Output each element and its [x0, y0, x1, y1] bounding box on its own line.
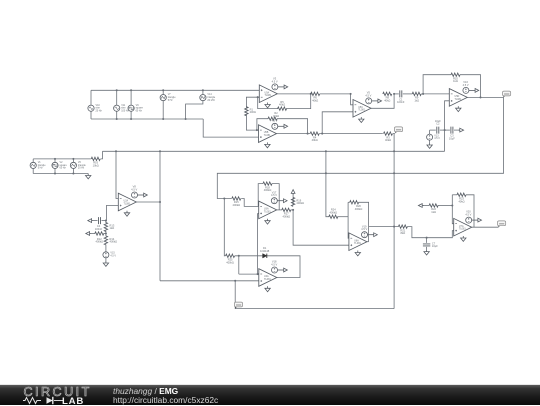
- wire U7 -in: [239, 273, 259, 275]
- diode D1: [263, 254, 267, 258]
- svg-text:TL081: TL081: [459, 228, 466, 231]
- resistor R23: [457, 193, 466, 196]
- label R14_400kΩ: [110, 237, 118, 244]
- wire R9 to U8 -in: [421, 93, 449, 95]
- resistor R21: [398, 225, 407, 228]
- label V10_sine_20 Hz: [96, 104, 103, 113]
- svg-text:4.5 V: 4.5 V: [271, 262, 277, 266]
- junction: [115, 150, 117, 152]
- capacitor C3: [451, 127, 453, 134]
- svg-text:4.5 V: 4.5 V: [434, 137, 440, 140]
- ground U6: [265, 219, 270, 224]
- junction: [393, 150, 395, 152]
- wire R3 to flag: [393, 133, 395, 135]
- svg-text:400kΩ: 400kΩ: [355, 207, 363, 211]
- wire V7 branch: [162, 90, 164, 119]
- wire U9 fb top left: [348, 201, 350, 203]
- ac source V11: [114, 105, 120, 111]
- label R21_8kΩ: [401, 228, 406, 235]
- label R8_40kΩ: [384, 96, 390, 103]
- svg-text:4.5 V: 4.5 V: [110, 254, 116, 257]
- svg-text:TL081: TL081: [354, 242, 361, 245]
- ground lower sources: [86, 174, 91, 179]
- svg-text:TL081: TL081: [455, 98, 462, 101]
- wire R1 top: [246, 97, 257, 108]
- ac source V6: [70, 162, 76, 168]
- wire to U7 +in path: [293, 210, 349, 245]
- wire U2 feedback right: [277, 119, 308, 134]
- svg-text:1kΩ: 1kΩ: [453, 79, 458, 83]
- ground U1: [265, 103, 270, 108]
- wire R19 to arrow: [292, 196, 294, 199]
- junction: [105, 220, 107, 222]
- label C2: [436, 122, 440, 126]
- resistor R8: [383, 92, 392, 95]
- wire U5 out down rail: [159, 151, 161, 280]
- op-amp U10: [454, 218, 472, 236]
- ac source V9: [128, 105, 134, 111]
- junction: [116, 89, 118, 91]
- net arrow R22: [418, 204, 424, 208]
- svg-text:4.5 V: 4.5 V: [271, 119, 277, 123]
- op-amp U6: [259, 201, 277, 219]
- ground U2: [265, 142, 270, 147]
- wire R4 to R3: [319, 133, 383, 135]
- junction: [72, 172, 74, 174]
- net flag out1: [503, 91, 511, 98]
- net arrow R19: [291, 190, 295, 196]
- label 1N4148: [260, 249, 270, 253]
- ac source V14: [200, 95, 206, 101]
- label V7_triangle_5 Hz: [168, 93, 177, 102]
- wire U5 +in to bias: [106, 206, 118, 221]
- svg-text:60 Hz: 60 Hz: [60, 167, 67, 170]
- svg-text:40kΩ: 40kΩ: [312, 138, 318, 142]
- label R25_400kΩ: [226, 258, 234, 265]
- svg-text:4.5 V: 4.5 V: [271, 193, 277, 197]
- svg-text:40kΩ: 40kΩ: [312, 98, 318, 102]
- power arrow V16: [469, 89, 479, 93]
- junction: [234, 280, 236, 282]
- resistor R6: [311, 92, 320, 95]
- ground U10: [461, 236, 466, 241]
- junction: [162, 89, 164, 91]
- wire U9 out to R21: [369, 226, 399, 228]
- label R18_400kΩ: [264, 185, 272, 192]
- resistor R5: [278, 107, 287, 110]
- svg-text:10µF: 10µF: [449, 137, 455, 141]
- junction: [105, 232, 107, 234]
- wire U10 feedback right: [466, 195, 474, 227]
- wire U2 feedback left: [257, 119, 268, 130]
- label D1: [263, 246, 267, 250]
- ground U9: [355, 251, 360, 256]
- junction: [256, 129, 258, 131]
- wire C7 to gnd: [426, 247, 428, 250]
- svg-text:8kΩ: 8kΩ: [401, 231, 406, 235]
- resistor R25: [226, 254, 235, 257]
- resistor R10: [451, 73, 460, 76]
- wire V13b branch: [54, 159, 56, 174]
- junction: [162, 118, 164, 120]
- resistor R13: [104, 223, 107, 232]
- label C1_100nF: [397, 97, 405, 104]
- power arrow V17: [277, 199, 287, 203]
- wire U5 out: [136, 201, 160, 203]
- junction: [422, 93, 424, 95]
- wire U10 out to flag: [472, 226, 499, 228]
- wire U1 out: [277, 93, 310, 95]
- wire bottom-rail lower sources: [33, 173, 88, 175]
- svg-text:400kΩ: 400kΩ: [233, 203, 241, 207]
- svg-text:4.5 V: 4.5 V: [131, 187, 137, 191]
- net flag elec2: [394, 127, 402, 133]
- junction: [130, 118, 132, 120]
- wire U9 apex stub: [367, 241, 369, 243]
- svg-text:40kΩ: 40kΩ: [279, 103, 285, 107]
- svg-text:1kΩ: 1kΩ: [110, 226, 115, 230]
- junction: [325, 150, 327, 152]
- resistor R24: [329, 215, 338, 218]
- junction: [257, 96, 259, 98]
- wire U1 feedback right: [286, 94, 311, 109]
- wire to U2 +in: [203, 119, 258, 137]
- label V9_square_60 Hz: [136, 104, 144, 113]
- wire to U3 +in: [322, 112, 353, 134]
- ground U3: [359, 117, 364, 122]
- net arrow vref: [458, 128, 464, 132]
- label C3_10µF: [449, 134, 455, 141]
- resistor R14: [104, 236, 107, 245]
- label V6_triangle_20 Hz: [78, 161, 87, 170]
- svg-text:10µF: 10µF: [432, 244, 438, 248]
- ac source V10: [88, 105, 94, 111]
- label R20_400kΩ: [355, 204, 363, 211]
- wire V15 to gnd: [105, 258, 107, 261]
- wire top-rail sources: [91, 89, 259, 91]
- capacitor C1: [400, 90, 402, 97]
- wire U9 feedback right: [359, 202, 369, 241]
- label R19_400kΩ: [296, 198, 304, 205]
- resistor R20: [350, 201, 359, 204]
- label V14_triangle_20 kHz: [207, 93, 216, 102]
- junction: [159, 150, 161, 152]
- label V8_4.5 V: [131, 185, 137, 192]
- label R3_40kΩ: [385, 135, 391, 142]
- wire right vertical rail: [393, 133, 395, 309]
- junction: [451, 204, 453, 206]
- svg-text:10kΩ: 10kΩ: [93, 163, 99, 167]
- net flag out2: [234, 302, 242, 309]
- label V13_4.5 V: [434, 134, 440, 140]
- svg-text:4.5 V: 4.5 V: [272, 79, 278, 83]
- svg-text:100nF: 100nF: [95, 227, 103, 231]
- svg-text:TL081: TL081: [264, 134, 271, 137]
- wire rail down to R24: [326, 151, 329, 216]
- svg-text:TL081: TL081: [358, 109, 365, 112]
- net arrow R12: [86, 232, 92, 236]
- wire C3 to vref arrow: [454, 129, 458, 131]
- dc source V13: [427, 134, 433, 140]
- wire to C1: [394, 93, 399, 95]
- resistor R16: [91, 157, 100, 160]
- wire R15 to U6 -in: [241, 199, 259, 207]
- svg-text:TL081: TL081: [265, 94, 272, 97]
- wire V11 branch: [116, 90, 118, 119]
- svg-text:TL081: TL081: [264, 210, 271, 213]
- junction: [393, 172, 395, 174]
- wire U6 feedback right: [272, 184, 279, 210]
- power arrow V5: [372, 99, 382, 103]
- wire U6 +in down: [257, 213, 259, 274]
- wire arrow to R22: [424, 205, 429, 207]
- wire U2 out: [277, 133, 311, 135]
- label V20_4.5 V: [465, 210, 471, 217]
- dc source V4: [272, 123, 278, 129]
- wire R16b to D1: [235, 255, 263, 257]
- capacitor C7: [423, 244, 430, 246]
- wire to U7 +in: [160, 280, 259, 282]
- svg-text:1kΩ: 1kΩ: [431, 210, 436, 214]
- svg-text:20 kHz: 20 kHz: [207, 99, 215, 102]
- wire node A to U3 -in: [351, 94, 353, 105]
- svg-text:1kΩ: 1kΩ: [414, 98, 419, 102]
- label V17_4.5 V: [271, 190, 277, 197]
- junction: [292, 209, 294, 211]
- wire R6 to node A: [320, 93, 351, 95]
- dc source V5: [366, 98, 372, 104]
- label V5_4.5 V: [365, 91, 371, 98]
- op-amp U2: [259, 125, 277, 143]
- wire R12 to node: [104, 233, 106, 235]
- junction: [426, 237, 428, 239]
- wire V13 to C2: [430, 129, 436, 131]
- resistor R4: [310, 132, 319, 135]
- wire R17 to node: [291, 209, 294, 211]
- wire bottom-rail sources: [91, 118, 203, 120]
- junction: [325, 172, 327, 174]
- wire R16 to mid rail: [101, 151, 103, 159]
- wire down to R16b: [224, 199, 225, 256]
- ac source V7: [160, 95, 166, 101]
- resistor R9: [412, 92, 421, 95]
- label C4_100nF: [95, 224, 103, 231]
- svg-text:400kΩ: 400kΩ: [283, 214, 291, 218]
- resistor R19: [291, 197, 294, 206]
- power arrow V19: [368, 233, 378, 237]
- wire V14 branch: [186, 90, 203, 119]
- junction: [54, 172, 56, 174]
- junction: [310, 93, 312, 95]
- power arrow V18: [278, 268, 288, 272]
- junction: [202, 89, 204, 91]
- wire U3 out up: [371, 94, 394, 108]
- wire V9 branch: [130, 90, 132, 119]
- wire mid reference rail: [103, 150, 445, 152]
- label R24: [331, 208, 336, 212]
- svg-text:40kΩ: 40kΩ: [384, 98, 390, 102]
- svg-text:5 Hz: 5 Hz: [38, 167, 44, 170]
- resistor R17: [282, 208, 291, 211]
- net flag out3: [498, 221, 506, 228]
- junction: [393, 93, 395, 95]
- svg-text:40kΩ: 40kΩ: [385, 138, 391, 142]
- wire bias chain verticals: [105, 221, 107, 252]
- junction: [116, 118, 118, 120]
- power arrow V20: [472, 218, 482, 222]
- dc source V3: [272, 84, 278, 90]
- svg-text:400kΩ: 400kΩ: [296, 201, 304, 205]
- op-amp U9: [349, 233, 367, 251]
- label R13_1kΩ: [110, 223, 115, 230]
- label V4_4.5 V: [271, 116, 277, 123]
- wire U8 out: [467, 96, 503, 98]
- dc source V18: [272, 267, 278, 273]
- wire U6 feedback left: [258, 184, 263, 207]
- wire U10 -in vertical: [452, 195, 453, 224]
- svg-text:4.5 V: 4.5 V: [463, 83, 469, 87]
- wire rail to U5 -in: [116, 151, 118, 198]
- junction: [238, 255, 240, 257]
- label R5_40kΩ: [279, 100, 285, 107]
- capacitor C4: [99, 217, 101, 224]
- label V18_4.5 V: [271, 260, 277, 267]
- resistor R1: [245, 107, 248, 116]
- wire D1 node down: [238, 256, 240, 274]
- op-amp U7: [259, 269, 277, 287]
- label V11_sine_100 Hz: [121, 104, 129, 113]
- svg-text:TL081: TL081: [124, 202, 131, 205]
- wire R12 to arrow: [92, 233, 95, 235]
- wire rail to U8 +in: [445, 101, 450, 152]
- svg-text:400kΩ: 400kΩ: [226, 260, 234, 264]
- wire top-rail lower sources: [33, 158, 91, 160]
- label V3_4.5 V: [272, 77, 278, 84]
- wire C1 to R9: [403, 93, 412, 95]
- wire to C7: [426, 238, 428, 243]
- net arrow C4: [88, 219, 94, 223]
- ac source V1: [30, 162, 36, 168]
- svg-text:TL081: TL081: [264, 278, 271, 281]
- resistor R15: [232, 197, 241, 200]
- wire R24 to U9 -in node: [337, 216, 348, 218]
- power arrow V4: [278, 124, 288, 128]
- wire D1 to U7 out: [267, 256, 300, 278]
- label R1_200Ω: [250, 107, 256, 114]
- junction: [444, 129, 446, 131]
- label R23_40kΩ: [458, 197, 464, 204]
- svg-text:200Ω: 200Ω: [250, 110, 256, 114]
- label 10µF: [435, 119, 441, 123]
- svg-text:20 Hz: 20 Hz: [78, 167, 85, 170]
- svg-text:400kΩ: 400kΩ: [330, 210, 338, 214]
- svg-text:20 Hz: 20 Hz: [96, 109, 103, 112]
- ground U7: [265, 286, 270, 291]
- wire out2 bottom rail: [235, 281, 394, 309]
- wire U6 +in stub: [258, 212, 259, 214]
- wire C4 to arrow: [94, 220, 98, 222]
- power arrow V3: [278, 85, 288, 89]
- svg-text:60 Hz: 60 Hz: [136, 109, 143, 112]
- label V19_4.5 V: [361, 224, 367, 231]
- junction: [185, 118, 187, 120]
- wire V14b branch: [72, 159, 74, 174]
- dc source V17: [271, 198, 277, 204]
- svg-text:4.5 V: 4.5 V: [365, 93, 371, 97]
- wire out1 long feedback rail: [217, 97, 503, 198]
- power arrow V8: [138, 193, 148, 197]
- wire R21 to U10 +in: [407, 227, 453, 238]
- label R12_400kΩ: [96, 237, 104, 244]
- junction: [223, 197, 225, 199]
- label C7_10µF: [432, 241, 438, 248]
- junction: [393, 226, 395, 228]
- dc source V16: [463, 87, 469, 93]
- wire C4 to node: [102, 220, 106, 222]
- op-amp U5: [118, 193, 136, 211]
- label R22_1kΩ: [431, 207, 436, 214]
- junction: [479, 96, 481, 98]
- resistor R3: [384, 132, 393, 135]
- wire U6 out: [277, 209, 282, 211]
- label R6_40kΩ: [312, 96, 318, 103]
- wire U8 feedback right: [460, 75, 481, 98]
- wire C2 to C3: [440, 129, 450, 131]
- resistor R22: [429, 204, 438, 207]
- junction: [350, 93, 352, 95]
- ground U8: [456, 106, 461, 111]
- label V2_square_60 Hz: [60, 161, 68, 170]
- ground V15: [103, 261, 108, 266]
- op-amp U8: [449, 89, 467, 107]
- wire V10 branch: [90, 90, 92, 119]
- label V16_4.5 V: [463, 80, 469, 87]
- dc source V15: [103, 252, 109, 258]
- ground C7: [424, 250, 429, 255]
- label V15_4.5 V: [110, 252, 116, 258]
- svg-text:400kΩ: 400kΩ: [110, 240, 118, 244]
- ground V13: [427, 143, 432, 148]
- CircuitLab logo: [16, 385, 126, 406]
- svg-text:400kΩ: 400kΩ: [96, 240, 104, 244]
- label 400kΩ: [330, 210, 338, 214]
- wire U10 fb top left: [452, 194, 457, 196]
- ground U5: [124, 211, 129, 216]
- junction: [257, 273, 259, 275]
- junction: [159, 201, 161, 203]
- label R4_40kΩ: [312, 135, 318, 142]
- ac source V2: [52, 162, 58, 168]
- junction: [54, 158, 56, 160]
- junction: [130, 89, 132, 91]
- wire V12 branch: [32, 159, 34, 174]
- svg-text:5 Hz: 5 Hz: [168, 99, 174, 102]
- svg-text:1N4148: 1N4148: [260, 249, 270, 253]
- label R9_1kΩ: [414, 96, 419, 103]
- wire U8 feedback left: [423, 75, 451, 94]
- wire R1 bottom: [246, 115, 258, 131]
- svg-text:100nF: 100nF: [397, 100, 405, 104]
- label V1_triangle_5 Hz: [38, 161, 47, 170]
- label R10_1kΩ: [453, 76, 458, 83]
- svg-text:4.5 V: 4.5 V: [361, 227, 367, 231]
- svg-text:4.5 V: 4.5 V: [465, 213, 471, 217]
- label R2_40kΩ: [273, 111, 279, 118]
- capacitor C2: [437, 127, 439, 134]
- junction: [72, 158, 74, 160]
- resistor R12: [95, 232, 104, 235]
- wire U1 feedback left: [258, 97, 279, 108]
